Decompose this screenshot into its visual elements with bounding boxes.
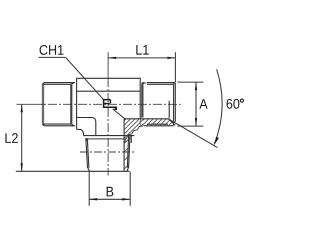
dimension L1 line and arrows xyxy=(108,52,175,82)
body hex xyxy=(77,78,141,130)
left port thread runout wedge top xyxy=(71,82,75,84)
body hex bottom left edge with radius into collar xyxy=(77,129,84,135)
collar right short edge xyxy=(130,136,132,143)
collar face xyxy=(84,135,135,137)
body hex lower flat line left with fillet into neck xyxy=(77,118,96,136)
dimension A text xyxy=(199,99,207,109)
body to right port shoulder line xyxy=(124,118,169,120)
internal cone diagonal from leg bore xyxy=(113,109,126,119)
dimension B extension lines xyxy=(89,172,130,206)
thread start line xyxy=(87,138,124,140)
section hatch corner between leg and body xyxy=(102,101,144,143)
centerline horizontal main axis xyxy=(17,103,181,105)
60 degree arc with arrowhead xyxy=(214,69,222,144)
left port thread runout wedge bottom xyxy=(71,124,75,126)
label CH1 text xyxy=(40,45,64,55)
left port male thread xyxy=(42,83,75,126)
dimension L2 text xyxy=(5,133,17,143)
section hatch leg right band xyxy=(124,138,130,177)
leg thread teeth staircase in section corner xyxy=(125,126,143,143)
body right edge through section xyxy=(139,119,141,126)
label 60 degrees text xyxy=(227,99,244,109)
bottom leg end face xyxy=(86,170,129,172)
wrench flats symbol on hex xyxy=(104,100,117,110)
bottom leg thread runout wedge top left xyxy=(86,138,89,141)
dimension L2 extension bottom (leg face extended) xyxy=(16,170,87,172)
dimension A extension lines xyxy=(178,82,204,126)
60 degree cone extension line xyxy=(169,119,218,148)
section hatch right port band xyxy=(137,87,176,126)
right port male thread xyxy=(142,83,176,126)
bottom leg right profile in section xyxy=(124,119,130,172)
dimension B text xyxy=(107,187,114,197)
dimension L1 text xyxy=(136,45,148,55)
bottom leg male taper thread left profile xyxy=(86,138,90,171)
right port thread runout wedge xyxy=(142,82,147,85)
centerline leg cross axis xyxy=(80,151,136,153)
centerline vertical leg axis xyxy=(107,52,109,175)
dimension L2 line and arrows xyxy=(21,104,23,171)
